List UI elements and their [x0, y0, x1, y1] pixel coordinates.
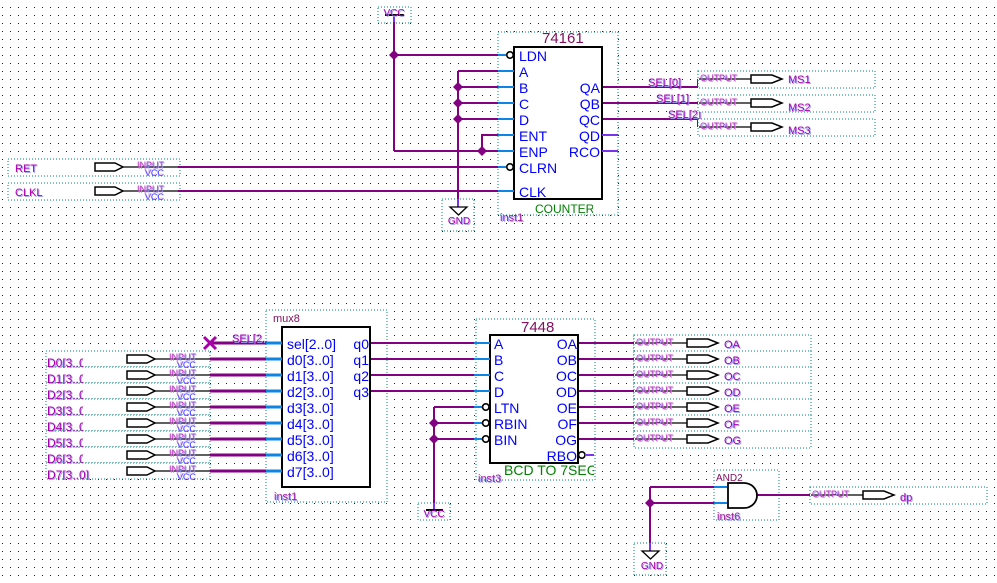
- wire to BIN: [434, 438, 475, 440]
- wire GND2 trunk: [649, 487, 651, 551]
- pin ENT of 74161: [498, 128, 547, 144]
- wire to RBIN: [434, 422, 475, 424]
- svg-text:BCD TO 7SEG: BCD TO 7SEG: [504, 462, 598, 478]
- power VCC top symbol: [383, 8, 405, 23]
- svg-text:OB: OB: [724, 355, 740, 367]
- svg-text:OUTPUT: OUTPUT: [636, 433, 674, 443]
- pin q1 of mux8: [353, 352, 369, 368]
- svg-text:SEL[0]: SEL[0]: [648, 77, 681, 89]
- svg-text:OUTPUT: OUTPUT: [636, 417, 674, 427]
- pin d5[3..0] of mux8: [266, 432, 334, 448]
- input pin CLKL: [15, 184, 178, 202]
- svg-text:GND: GND: [448, 216, 470, 227]
- pin BIN of 7448: [474, 432, 517, 448]
- input pin D3[3..0]: [47, 400, 210, 419]
- svg-text:GND: GND: [641, 561, 663, 572]
- wire net RET to CLRN: [178, 166, 499, 168]
- wire 7448 OG to output: [578, 438, 636, 440]
- svg-text:OA: OA: [724, 339, 741, 351]
- svg-text:SEL[2]: SEL[2]: [668, 109, 701, 121]
- pin OG of 7448: [555, 432, 577, 448]
- input pin D1[3..0]: [47, 368, 210, 387]
- output pin symbol MS1: [698, 71, 875, 88]
- bus SEL[2..0] to mux8 sel: [210, 342, 266, 345]
- svg-text:OA: OA: [557, 336, 578, 352]
- output pin symbol OC: [634, 367, 811, 384]
- svg-text:RBIN: RBIN: [494, 416, 527, 432]
- net label SEL[2]: [668, 109, 702, 122]
- svg-text:QD: QD: [579, 128, 600, 144]
- svg-text:RCO: RCO: [569, 144, 600, 160]
- pin D of 74161: [498, 112, 529, 128]
- svg-text:inst1: inst1: [274, 491, 297, 503]
- gate inst6 AND2: [714, 473, 757, 524]
- ground GND bottom symbol: [641, 551, 664, 573]
- svg-text:SEL[1]: SEL[1]: [656, 93, 689, 105]
- svg-text:OUTPUT: OUTPUT: [636, 369, 674, 379]
- svg-text:OG: OG: [555, 432, 577, 448]
- dangling bus X marker: [204, 337, 216, 349]
- svg-text:OUTPUT: OUTPUT: [700, 121, 738, 131]
- svg-text:inst3: inst3: [478, 473, 501, 485]
- pin RCO of 74161: [569, 144, 618, 160]
- svg-text:OUTPUT: OUTPUT: [812, 489, 850, 499]
- svg-text:mux8: mux8: [273, 313, 300, 325]
- bus D2[3..0] to mux8 d2: [210, 390, 266, 393]
- wire net SEL[0] QA to MS1: [602, 79, 701, 88]
- output pin symbol OA: [634, 335, 811, 352]
- svg-text:OUTPUT: OUTPUT: [700, 97, 738, 107]
- svg-text:q3: q3: [353, 384, 369, 400]
- pin OA of 7448: [557, 336, 578, 352]
- pin q3 of mux8: [353, 384, 369, 400]
- wire VCC to LDN: [394, 54, 499, 56]
- wire VCC to ENP: [394, 150, 499, 152]
- selection box of ground GND bottom: [634, 543, 666, 575]
- svg-text:OUTPUT: OUTPUT: [700, 73, 738, 83]
- svg-text:B: B: [494, 352, 503, 368]
- wire ENT branch: [482, 134, 499, 151]
- svg-text:QA: QA: [580, 80, 601, 96]
- wire q2 to 7448 C: [370, 374, 475, 376]
- wire AND2 input upper: [650, 486, 714, 488]
- output pin symbol dp: [810, 487, 987, 505]
- svg-text:QC: QC: [579, 112, 600, 128]
- junction BIN: [429, 434, 439, 444]
- svg-text:D0[3..0]: D0[3..0]: [47, 356, 89, 370]
- svg-text:OB: OB: [557, 352, 577, 368]
- svg-text:MS2: MS2: [788, 102, 811, 114]
- svg-text:CLRN: CLRN: [519, 160, 557, 176]
- svg-text:D6[3..0]: D6[3..0]: [47, 452, 89, 466]
- svg-text:OUTPUT: OUTPUT: [636, 353, 674, 363]
- pin QC of 74161: [579, 112, 600, 128]
- bus D6[3..0] to mux8 d6: [210, 454, 266, 457]
- input pin D6[3..0]: [47, 448, 210, 467]
- svg-text:OF: OF: [724, 419, 740, 431]
- wire q3 to 7448 D: [370, 390, 475, 392]
- selection box of IC 74161: [498, 32, 618, 215]
- svg-text:OG: OG: [724, 435, 741, 447]
- svg-text:D3[3..0]: D3[3..0]: [47, 404, 89, 418]
- pin d1[3..0] of mux8: [266, 368, 334, 384]
- wire net CLKL to CLK: [178, 190, 499, 192]
- svg-text:LTN: LTN: [494, 400, 519, 416]
- input pin D4[3..0]: [47, 416, 210, 435]
- pin OE of 7448: [557, 400, 577, 416]
- junction VCC/LDN: [389, 50, 399, 60]
- bus D7[3..0] to mux8 d7: [210, 470, 266, 473]
- input pin D7[3..0]: [47, 464, 210, 483]
- output pin symbol OE: [634, 399, 811, 416]
- input pin D0[3..0]: [47, 352, 210, 371]
- svg-text:COUNTER: COUNTER: [535, 202, 595, 216]
- svg-text:CLK: CLK: [519, 184, 547, 200]
- pin d4[3..0] of mux8: [266, 416, 334, 432]
- selection boxes of output pins OA..OG: [634, 335, 811, 447]
- junction C: [453, 98, 463, 108]
- pin C of 74161: [498, 96, 529, 112]
- selection box of output pin MS1: [698, 71, 875, 88]
- pin B of 7448: [474, 352, 503, 368]
- IC inst3 7448 BCD to 7seg: [478, 319, 598, 486]
- svg-text:OF: OF: [558, 416, 577, 432]
- wire q1 to 7448 B: [370, 358, 475, 360]
- svg-text:dp: dp: [900, 492, 912, 504]
- junction RBIN: [429, 418, 439, 428]
- wire to pin B: [458, 86, 499, 88]
- pin d2[3..0] of mux8: [266, 384, 334, 400]
- svg-text:q0: q0: [353, 336, 369, 352]
- pin A of 7448: [474, 336, 504, 352]
- wire to LTN: [434, 406, 475, 408]
- svg-text:OUTPUT: OUTPUT: [636, 401, 674, 411]
- wire 7448 OC to output: [578, 374, 636, 376]
- svg-text:d0[3..0]: d0[3..0]: [287, 352, 334, 368]
- pin d0[3..0] of mux8: [266, 352, 334, 368]
- selection box of gate AND2: [714, 470, 779, 520]
- selection box of mux8: [266, 310, 387, 502]
- svg-text:D4[3..0]: D4[3..0]: [47, 420, 89, 434]
- svg-text:d7[3..0]: d7[3..0]: [287, 464, 334, 480]
- svg-text:7448: 7448: [521, 319, 554, 336]
- wire ground trunk for A B C D: [457, 71, 459, 207]
- pin OC of 7448: [556, 368, 577, 384]
- svg-text:RET: RET: [15, 163, 37, 175]
- wire 7448 OF to output: [578, 422, 636, 424]
- output pin symbol OG: [634, 431, 811, 448]
- svg-text:VCC: VCC: [383, 8, 404, 19]
- wire to pin A: [458, 70, 499, 72]
- pin B of 74161: [498, 80, 528, 96]
- net label SEL[0]: [648, 77, 682, 90]
- pin OF of 7448: [558, 416, 577, 432]
- svg-text:MS1: MS1: [788, 74, 811, 86]
- pin LTN of 7448: [474, 400, 519, 416]
- bus D4[3..0] to mux8 d4: [210, 422, 266, 425]
- wire q0 to 7448 A: [370, 342, 475, 344]
- junction D: [453, 114, 463, 124]
- IC inst1 74161 counter: [500, 30, 602, 225]
- wire AND2 output to dp: [757, 494, 813, 496]
- svg-text:D: D: [519, 112, 529, 128]
- selection box of IC 7448: [476, 319, 595, 480]
- pin QA of 74161: [580, 80, 601, 96]
- svg-text:d5[3..0]: d5[3..0]: [287, 432, 334, 448]
- pin ENP of 74161: [498, 144, 548, 160]
- svg-text:d2[3..0]: d2[3..0]: [287, 384, 334, 400]
- pin RBIN of 7448: [474, 416, 527, 432]
- svg-text:inst6: inst6: [717, 511, 740, 523]
- svg-text:D5[3..0]: D5[3..0]: [47, 436, 89, 450]
- svg-text:D2[3..0]: D2[3..0]: [47, 388, 89, 402]
- svg-text:BIN: BIN: [494, 432, 517, 448]
- pin OB of 7448: [557, 352, 577, 368]
- input pin D5[3..0]: [47, 432, 210, 451]
- svg-text:C: C: [519, 96, 529, 112]
- pin C of 7448: [474, 368, 504, 384]
- svg-text:d4[3..0]: d4[3..0]: [287, 416, 334, 432]
- svg-text:VCC: VCC: [177, 472, 197, 482]
- wire 7448 OE to output: [578, 406, 636, 408]
- pin d6[3..0] of mux8: [266, 448, 334, 464]
- svg-text:q2: q2: [353, 368, 369, 384]
- svg-text:q1: q1: [353, 352, 369, 368]
- svg-text:RBO: RBO: [547, 448, 577, 464]
- svg-text:QB: QB: [580, 96, 600, 112]
- pin D of 7448: [474, 384, 504, 400]
- wire AND2 input lower: [650, 502, 714, 504]
- wire VCC trunk vertical: [393, 22, 395, 151]
- svg-text:d1[3..0]: d1[3..0]: [287, 368, 334, 384]
- svg-text:A: A: [519, 64, 529, 80]
- net label SEL[1]: [656, 93, 690, 106]
- wire 7448 OB to output: [578, 358, 636, 360]
- junction ENT/ENP: [477, 146, 487, 156]
- wire to pin D: [458, 118, 499, 120]
- svg-text:sel[2..0]: sel[2..0]: [287, 336, 336, 352]
- svg-text:D: D: [494, 384, 504, 400]
- svg-text:OE: OE: [557, 400, 577, 416]
- ground GND top symbol: [448, 207, 471, 228]
- selection box of power VCC bottom: [418, 503, 450, 520]
- svg-text:d3[3..0]: d3[3..0]: [287, 400, 334, 416]
- pin q2 of mux8: [353, 368, 369, 384]
- input pin D2[3..0]: [47, 384, 210, 403]
- wire 7448 OD to output: [578, 390, 636, 392]
- pin QB of 74161: [580, 96, 600, 112]
- svg-text:OE: OE: [724, 403, 740, 415]
- svg-text:ENP: ENP: [519, 144, 548, 160]
- svg-text:OD: OD: [556, 384, 577, 400]
- svg-text:ENT: ENT: [519, 128, 547, 144]
- bus D0[3..0] to mux8 d0: [210, 358, 266, 361]
- power VCC bottom symbol: [423, 509, 445, 521]
- output pin symbol MS3: [698, 119, 875, 138]
- svg-text:OD: OD: [724, 387, 741, 399]
- wire net SEL[2] QC to MS3: [602, 118, 701, 127]
- pin sel[2..0] of mux8: [266, 336, 336, 352]
- input pin RET: [15, 160, 178, 178]
- svg-text:C: C: [494, 368, 504, 384]
- svg-text:D7[3..0]: D7[3..0]: [47, 468, 89, 482]
- wire to pin C: [458, 102, 499, 104]
- svg-text:LDN: LDN: [519, 48, 547, 64]
- junction AND2 lower: [645, 498, 655, 508]
- svg-text:D1[3..0]: D1[3..0]: [47, 372, 89, 386]
- bus D1[3..0] to mux8 d1: [210, 374, 266, 377]
- bus D3[3..0] to mux8 d3: [210, 406, 266, 409]
- IC inst1 mux8: [273, 313, 370, 504]
- selection boxes of input pins D0..D7: [46, 351, 210, 479]
- pin RBO of 7448: [547, 448, 594, 464]
- svg-text:VCC: VCC: [423, 509, 444, 520]
- svg-text:inst1: inst1: [500, 212, 523, 224]
- svg-text:B: B: [519, 80, 528, 96]
- svg-text:OUTPUT: OUTPUT: [636, 337, 674, 347]
- wire 7448 OA to output: [578, 342, 636, 344]
- svg-text:VCC: VCC: [145, 168, 165, 178]
- net label SEL[2..0] clipped: [232, 333, 278, 346]
- wire VCC2 trunk: [433, 407, 435, 510]
- selection box of power VCC top: [378, 7, 411, 23]
- pin A of 74161: [498, 64, 529, 80]
- pin CLRN of 74161: [498, 160, 557, 176]
- svg-text:VCC: VCC: [145, 192, 165, 202]
- output pin symbol MS2: [698, 95, 875, 115]
- svg-text:OUTPUT: OUTPUT: [636, 385, 674, 395]
- svg-text:d6[3..0]: d6[3..0]: [287, 448, 334, 464]
- selection box of input pin RET: [8, 159, 180, 176]
- pin OD of 7448: [556, 384, 577, 400]
- pin q0 of mux8: [353, 336, 369, 352]
- output pin symbol OD: [634, 383, 811, 400]
- selection box of input pin CLKL: [8, 183, 180, 200]
- bus D5[3..0] to mux8 d5: [210, 438, 266, 441]
- wire net SEL[1] QB to MS2: [602, 102, 701, 104]
- output pin symbol OF: [634, 415, 811, 432]
- pin d3[3..0] of mux8: [266, 400, 334, 416]
- selection box of output pin dp: [810, 488, 986, 504]
- pin CLK of 74161: [498, 184, 547, 200]
- svg-text:CLKL: CLKL: [15, 187, 43, 199]
- svg-text:OC: OC: [556, 368, 577, 384]
- pin QD of 74161: [579, 128, 618, 144]
- pin d7[3..0] of mux8: [266, 464, 334, 480]
- pin LDN of 74161: [498, 48, 547, 64]
- selection box of output pin MS2: [698, 95, 875, 112]
- svg-text:74161: 74161: [542, 30, 584, 47]
- svg-text:OC: OC: [724, 371, 741, 383]
- selection box of output pin MS3: [698, 119, 875, 136]
- svg-text:A: A: [494, 336, 504, 352]
- selection box of ground GND top: [442, 199, 474, 231]
- output pin symbol OB: [634, 351, 811, 368]
- svg-text:MS3: MS3: [788, 125, 811, 137]
- junction B: [453, 82, 463, 92]
